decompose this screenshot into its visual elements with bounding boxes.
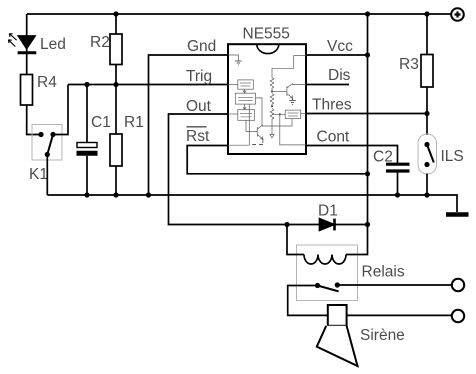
wire R3 top [426,14,428,55]
internal wire Trig pin to comparator 1 [228,84,238,86]
wire K1 bottom to ground rail [46,155,48,196]
reed switch ILS [418,134,437,174]
internal ground arrow below divider [270,135,274,138]
internal node comparator 2 input [279,113,281,115]
terminal out 2 [452,310,464,322]
internal node divider b/c [271,105,273,107]
internal node divider a/b [271,90,273,92]
diode D1 [320,219,335,231]
wire D1 net [287,224,368,226]
wire R3 bottom [426,87,428,114]
node Trig/R2/R1 [113,82,118,87]
node top rail / R2 junction [113,11,118,16]
svg-text:Cont: Cont [317,129,350,146]
wire Dis pin stub [306,84,349,86]
internal wire Cont pin riser [280,114,306,145]
resistor R2 [110,34,122,65]
svg-text:K1: K1 [29,166,48,183]
wire R2 top [115,14,117,34]
svg-text:R3: R3 [399,56,419,73]
internal discharge transistor [287,84,293,99]
resistor R1 [110,134,122,166]
svg-text:ILS: ILS [441,148,464,165]
wire Vcc pin net [306,54,368,56]
node D1 right / Vcc column / relay right [365,222,370,227]
internal wire comparator 2 bottom [262,119,292,126]
wire ILS bottom [426,174,428,196]
internal wire Out pin to output stage [228,113,238,115]
LED D2 (Led) [8,34,36,53]
terminal + (battery positive) [451,8,464,21]
internal marks below transistor 2 [252,139,263,145]
svg-text:Out: Out [186,98,212,115]
wire ground rail bottom [47,195,457,212]
resistor R3 [421,55,433,88]
internal ground at Gnd pin [228,55,238,61]
siren horn [317,326,358,366]
node Rst loop / Vcc column [365,171,370,176]
capacitor C1 (polarized) [77,143,98,154]
wire LED branch vertical [26,14,28,75]
wire ILS top [426,114,428,136]
capacitor C2 [386,164,410,171]
internal wire comparator 2 to Thres pin [301,113,306,115]
svg-text:NE555: NE555 [243,26,290,43]
node ground/C2 [395,192,400,197]
internal wire divider tap to transistor base [272,91,287,93]
internal wire flip-flop to transistor 2 [256,98,263,126]
wire K1 riser to Trig line [53,85,68,135]
wire R1 top [115,85,117,135]
wire relay switch right to terminal [337,284,452,286]
node Trig/C1 [84,82,89,87]
wire R1 bottom [115,166,117,195]
internal arrow comparator 1 to flip-flop [243,89,246,93]
node top rail / Vcc column junction [365,11,370,16]
internal wire Dis pin to transistor collector [293,84,307,85]
node Vcc/column [365,52,370,57]
svg-text:Thres: Thres [312,97,352,114]
wire C1 bottom [86,156,88,195]
resistor R4 [21,75,33,106]
wire Cont pin net to C2 [306,146,398,164]
internal wire divider to comparator 2 [272,113,285,115]
svg-text:Trig: Trig [186,68,212,85]
wire R2 bottom [115,65,117,85]
siren driver box [328,305,347,326]
svg-text:Rst: Rst [186,128,210,145]
wire Trig net horizontal [68,84,228,86]
ground symbol [446,212,469,217]
svg-text:R1: R1 [124,114,144,131]
IC internals [228,55,306,145]
wire siren to terminal [347,314,452,316]
wire relay coil right lead [346,225,368,255]
internal wire output stage to transistor 2 [246,120,257,131]
wire C1 top [86,85,88,143]
node top rail / R3 junction [424,11,429,16]
wire Thres pin net [306,113,427,115]
internal comparator 1 block [238,80,254,89]
wire R4 to K1 [27,105,41,135]
internal transistor 2 [257,125,263,139]
wire relay coil left lead [287,225,304,255]
svg-text:R2: R2 [90,34,110,51]
internal wire Rst pin to flip-flop [228,104,249,145]
internal divider resistor c [270,109,274,135]
svg-text:Gnd: Gnd [187,38,216,55]
node Out wrap / D1 left / relay left [284,222,289,227]
svg-text:Led: Led [40,36,66,53]
switch K1 [32,125,62,161]
internal arrow flip-flop to output stage [243,104,246,109]
wire relay switch left to siren [288,286,328,316]
svg-text:Relais: Relais [362,264,405,281]
node ground/Gnd pin [146,192,151,197]
internal divider resistor b [270,94,274,106]
svg-text:Dis: Dis [328,67,351,84]
IC U1 NE555 outline [228,44,306,154]
internal divider resistor a [270,78,274,92]
svg-text:C1: C1 [91,114,111,131]
node ground/R1 [113,192,118,197]
wire Vcc column vertical [367,14,369,225]
relay switch contacts [315,282,340,291]
node Thres/R3/ILS [424,111,429,116]
internal wire Vcc staircase to divider [272,56,306,78]
svg-text:Sirène: Sirène [360,327,405,344]
wire Out pin net [169,114,288,225]
wire Rst pin net to Vcc column [187,146,367,174]
svg-text:R4: R4 [37,74,57,91]
internal flip-flop block [235,93,255,104]
node ground/C1 [84,192,89,197]
wire top rail [27,13,451,15]
internal ground at transistor [289,98,295,105]
svg-text:Vcc: Vcc [327,38,353,55]
internal comparator 2 block [285,110,301,119]
node ground/ILS [424,192,429,197]
svg-text:C2: C2 [373,149,393,166]
internal output stage block [238,110,255,121]
wire C2 bottom [397,173,399,195]
relay coil [304,255,346,265]
relay K2 box [297,245,358,301]
svg-text:D1: D1 [318,203,338,220]
terminal out 1 [452,279,464,291]
wire Gnd pin net [149,55,228,195]
